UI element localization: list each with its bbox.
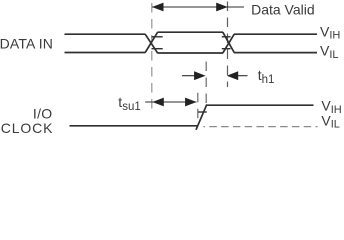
- wire tsu1 dimension arrow: [145, 98, 196, 107]
- wire clock low level: [70, 125, 198, 127]
- svg-text:DATA IN: DATA IN: [0, 35, 53, 51]
- svg-text:I/O: I/O: [33, 105, 53, 121]
- node A dashed vertical (clock edge low point): [197, 93, 199, 126]
- wire data bus valid segment bottom rail: [157, 52, 223, 54]
- wire crossover X1 up-slant: [145, 32, 157, 52]
- wire Data Valid dimension arrow: [152, 3, 244, 12]
- wire data bus left segment top rail: [65, 33, 146, 35]
- wire th1 right arrow: [227, 71, 248, 80]
- node D1 dashed vertical (first data transition): [151, 3, 153, 110]
- wire crossover X1 down-slant: [145, 34, 157, 53]
- node D2 dashed vertical (second data transition): [227, 2, 229, 88]
- svg-text:th1: th1: [258, 67, 275, 86]
- svg-text:VIH: VIH: [320, 23, 340, 41]
- wire X2 threshold tick top: [222, 36, 231, 38]
- svg-text:tsu1: tsu1: [118, 94, 140, 113]
- wire data bus right segment bottom rail: [234, 52, 317, 54]
- wire data bus left segment bottom rail: [65, 52, 146, 54]
- wire X2 threshold tick bottom: [222, 48, 231, 50]
- wire th1 left arrow: [182, 71, 206, 80]
- wire data bus valid segment top rail: [157, 31, 223, 33]
- wire crossover X2 down-slant: [223, 32, 234, 52]
- wire clock rising edge: [196, 104, 207, 129]
- wire clock high level: [206, 104, 313, 106]
- node D3 dashed vertical (clock edge high point): [205, 62, 207, 104]
- wire crossover X2 up-slant: [223, 34, 234, 53]
- svg-text:VIL: VIL: [320, 43, 339, 61]
- svg-text:Data Valid: Data Valid: [251, 2, 315, 18]
- wire X1 threshold tick bottom: [152, 48, 163, 50]
- svg-text:CLOCK: CLOCK: [1, 120, 53, 136]
- wire data bus right segment top rail: [234, 33, 317, 35]
- wire clock edge threshold tick: [198, 111, 207, 113]
- wire VIL dashed level (clock): [204, 126, 318, 128]
- wire X1 threshold tick top: [152, 36, 163, 38]
